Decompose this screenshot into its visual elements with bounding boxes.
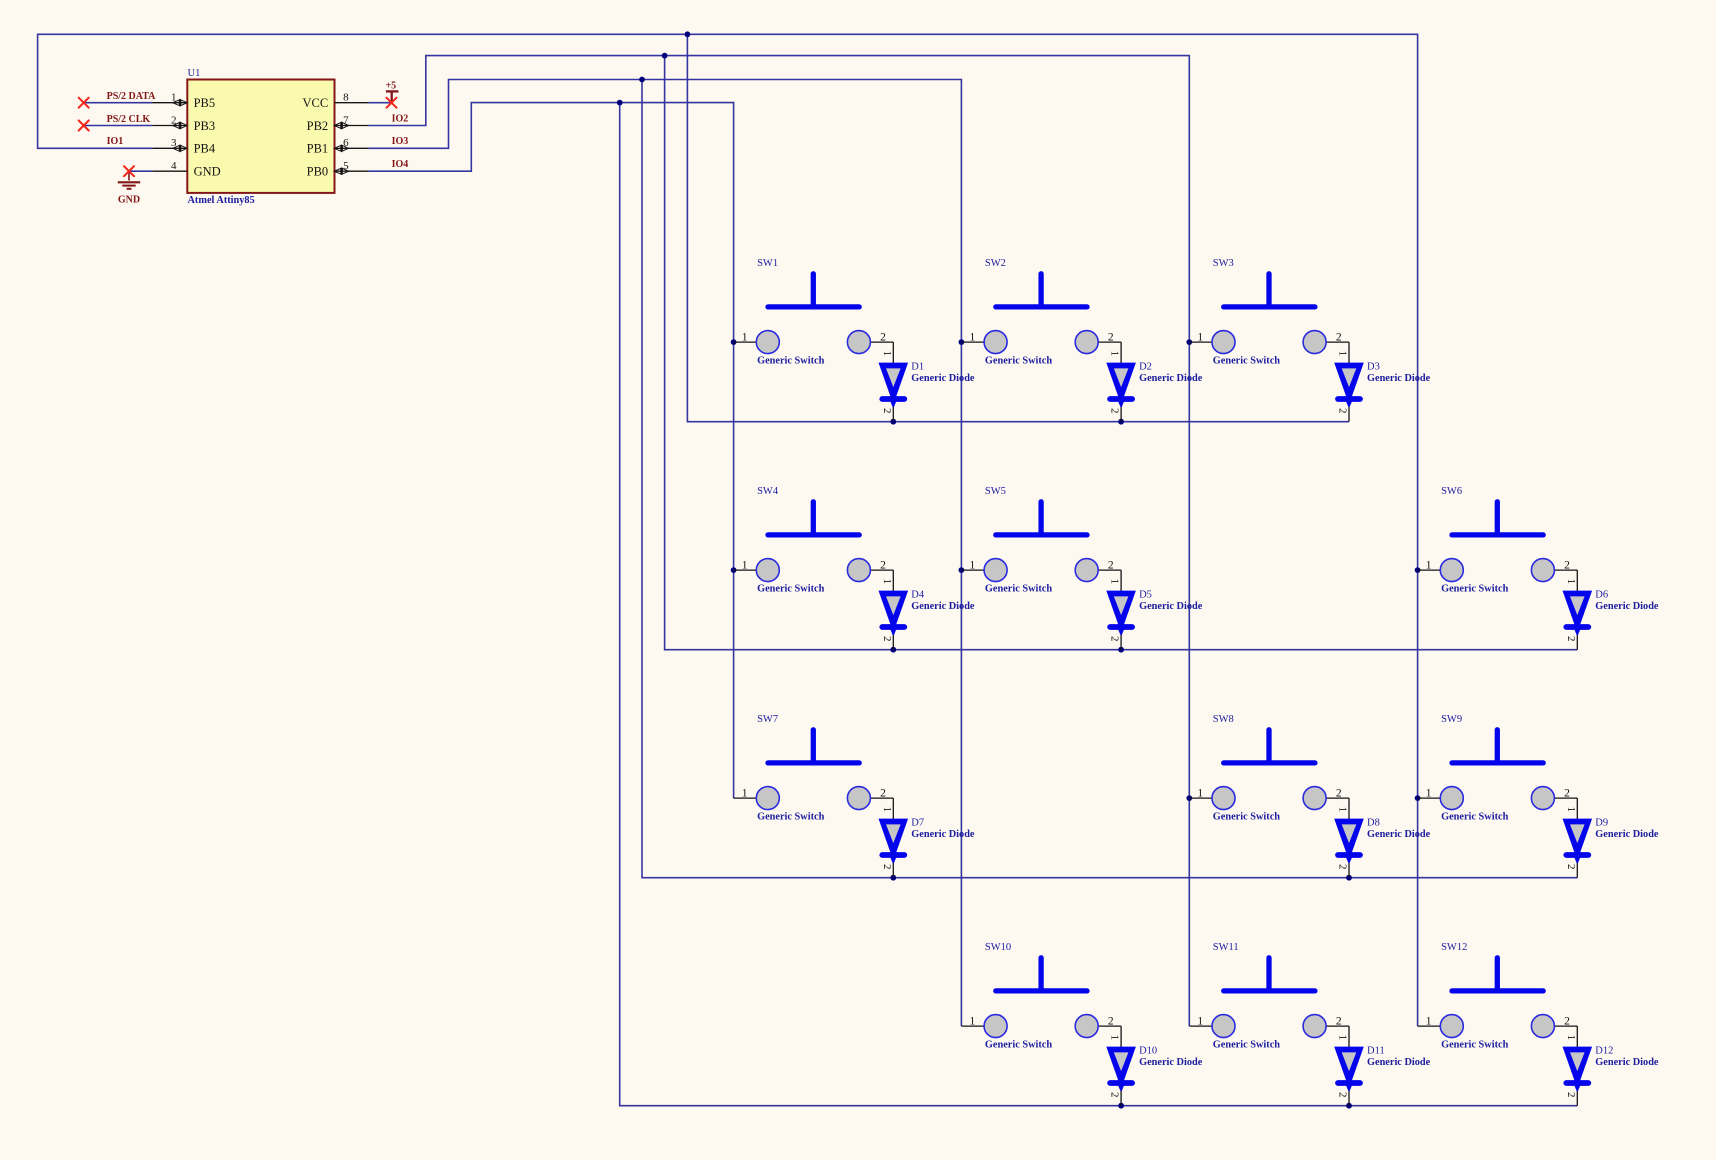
svg-text:1: 1: [742, 559, 748, 571]
svg-text:Generic Switch: Generic Switch: [1441, 1040, 1508, 1051]
svg-text:2: 2: [1337, 408, 1349, 414]
svg-text:2: 2: [1336, 787, 1342, 799]
svg-text:SW5: SW5: [985, 486, 1006, 497]
svg-text:VCC: VCC: [302, 96, 328, 110]
svg-text:1: 1: [1197, 1015, 1203, 1027]
svg-text:GND: GND: [194, 165, 221, 179]
svg-text:D4: D4: [911, 590, 925, 601]
svg-text:2: 2: [880, 787, 886, 799]
svg-text:Generic Diode: Generic Diode: [911, 373, 975, 384]
svg-text:1: 1: [881, 351, 893, 357]
svg-text:2: 2: [1109, 408, 1121, 414]
svg-text:2: 2: [1564, 1015, 1570, 1027]
svg-text:2: 2: [881, 864, 893, 870]
svg-text:2: 2: [881, 408, 893, 414]
svg-text:4: 4: [171, 160, 177, 172]
svg-text:1: 1: [1109, 351, 1121, 357]
svg-text:1: 1: [1565, 1035, 1577, 1041]
svg-text:6: 6: [343, 137, 349, 149]
svg-text:5: 5: [343, 160, 349, 172]
svg-text:1: 1: [1337, 1035, 1349, 1041]
svg-text:Generic Switch: Generic Switch: [985, 1040, 1052, 1051]
svg-text:2: 2: [1565, 864, 1577, 870]
svg-text:Generic Switch: Generic Switch: [985, 356, 1052, 367]
svg-text:D2: D2: [1139, 362, 1152, 373]
svg-text:D11: D11: [1367, 1046, 1385, 1057]
svg-text:PB4: PB4: [194, 142, 216, 156]
svg-text:1: 1: [1197, 787, 1203, 799]
svg-text:Generic Diode: Generic Diode: [1139, 373, 1203, 384]
svg-text:PB2: PB2: [307, 119, 329, 133]
svg-text:1: 1: [1109, 1035, 1121, 1041]
svg-text:SW12: SW12: [1441, 942, 1467, 953]
svg-text:Generic Switch: Generic Switch: [985, 584, 1052, 595]
svg-text:D5: D5: [1139, 590, 1152, 601]
svg-text:2: 2: [880, 559, 886, 571]
svg-text:8: 8: [343, 92, 349, 104]
svg-text:PS/2 CLK: PS/2 CLK: [107, 114, 151, 125]
svg-text:SW11: SW11: [1213, 942, 1239, 953]
svg-text:D8: D8: [1367, 818, 1380, 829]
svg-text:PB3: PB3: [194, 119, 216, 133]
svg-text:D3: D3: [1367, 362, 1380, 373]
svg-text:Generic Diode: Generic Diode: [1595, 1057, 1659, 1068]
svg-text:Generic Switch: Generic Switch: [757, 584, 824, 595]
svg-text:SW8: SW8: [1213, 714, 1234, 725]
svg-text:D1: D1: [911, 362, 924, 373]
svg-text:2: 2: [1336, 1015, 1342, 1027]
svg-text:SW1: SW1: [757, 258, 778, 269]
svg-text:1: 1: [970, 1015, 976, 1027]
svg-text:SW10: SW10: [985, 942, 1011, 953]
svg-text:2: 2: [171, 114, 177, 126]
svg-text:Generic Diode: Generic Diode: [1367, 373, 1431, 384]
svg-text:2: 2: [1337, 864, 1349, 870]
svg-text:1: 1: [881, 579, 893, 585]
svg-text:2: 2: [1565, 636, 1577, 642]
svg-text:D12: D12: [1595, 1046, 1613, 1057]
svg-text:2: 2: [1337, 1092, 1349, 1098]
svg-text:1: 1: [1565, 807, 1577, 813]
svg-text:Generic Switch: Generic Switch: [1441, 584, 1508, 595]
svg-text:2: 2: [880, 331, 886, 343]
svg-text:1: 1: [1109, 579, 1121, 585]
svg-text:1: 1: [1197, 331, 1203, 343]
svg-text:1: 1: [970, 331, 976, 343]
svg-text:2: 2: [1564, 787, 1570, 799]
svg-text:+5: +5: [385, 81, 396, 92]
svg-text:D7: D7: [911, 818, 924, 829]
svg-text:D9: D9: [1595, 818, 1608, 829]
svg-text:Generic Diode: Generic Diode: [1595, 829, 1659, 840]
svg-text:Generic Switch: Generic Switch: [757, 356, 824, 367]
svg-text:D10: D10: [1139, 1046, 1157, 1057]
svg-text:2: 2: [1109, 636, 1121, 642]
svg-text:1: 1: [881, 807, 893, 813]
svg-text:1: 1: [1337, 351, 1349, 357]
svg-text:SW4: SW4: [757, 486, 779, 497]
svg-text:2: 2: [1565, 1092, 1577, 1098]
svg-text:Generic Switch: Generic Switch: [757, 812, 824, 823]
svg-text:1: 1: [742, 787, 748, 799]
svg-text:Generic Diode: Generic Diode: [911, 601, 975, 612]
svg-text:2: 2: [1108, 331, 1114, 343]
svg-text:Generic Diode: Generic Diode: [1139, 1057, 1203, 1068]
svg-text:Generic Switch: Generic Switch: [1213, 812, 1280, 823]
svg-text:SW9: SW9: [1441, 714, 1462, 725]
svg-text:2: 2: [1564, 559, 1570, 571]
svg-text:IO4: IO4: [392, 159, 409, 170]
svg-text:1: 1: [1426, 1015, 1432, 1027]
svg-text:Generic Diode: Generic Diode: [1367, 829, 1431, 840]
svg-text:SW3: SW3: [1213, 258, 1234, 269]
svg-text:Generic Switch: Generic Switch: [1213, 356, 1280, 367]
svg-text:2: 2: [1336, 331, 1342, 343]
svg-text:1: 1: [1426, 787, 1432, 799]
svg-text:1: 1: [1337, 807, 1349, 813]
svg-text:PB5: PB5: [194, 96, 216, 110]
svg-text:PB0: PB0: [307, 165, 329, 179]
svg-text:Generic Diode: Generic Diode: [1595, 601, 1659, 612]
svg-text:Generic Switch: Generic Switch: [1213, 1040, 1280, 1051]
svg-text:2: 2: [1108, 559, 1114, 571]
svg-text:2: 2: [1109, 1092, 1121, 1098]
svg-text:U1: U1: [188, 68, 201, 79]
svg-text:1: 1: [742, 331, 748, 343]
svg-text:SW2: SW2: [985, 258, 1006, 269]
svg-text:3: 3: [171, 137, 177, 149]
svg-text:D6: D6: [1595, 590, 1608, 601]
svg-text:IO1: IO1: [107, 136, 124, 147]
svg-text:GND: GND: [118, 195, 140, 206]
svg-text:IO3: IO3: [392, 136, 409, 147]
svg-text:1: 1: [1565, 579, 1577, 585]
svg-text:SW7: SW7: [757, 714, 778, 725]
svg-text:Generic Diode: Generic Diode: [1139, 601, 1203, 612]
svg-text:1: 1: [1426, 559, 1432, 571]
svg-text:PS/2 DATA: PS/2 DATA: [107, 91, 157, 102]
svg-text:Generic Switch: Generic Switch: [1441, 812, 1508, 823]
svg-text:1: 1: [171, 92, 177, 104]
svg-text:7: 7: [343, 114, 349, 126]
svg-text:2: 2: [881, 636, 893, 642]
svg-text:Atmel Attiny85: Atmel Attiny85: [188, 195, 255, 206]
svg-text:2: 2: [1108, 1015, 1114, 1027]
svg-text:PB1: PB1: [307, 142, 329, 156]
svg-text:SW6: SW6: [1441, 486, 1462, 497]
svg-text:Generic Diode: Generic Diode: [911, 829, 975, 840]
svg-text:IO2: IO2: [392, 113, 409, 124]
svg-text:Generic Diode: Generic Diode: [1367, 1057, 1431, 1068]
svg-text:1: 1: [970, 559, 976, 571]
